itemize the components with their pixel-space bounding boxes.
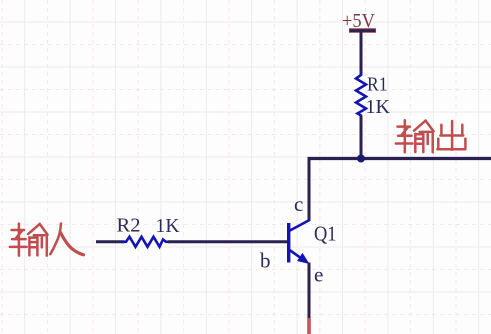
svg-text:c: c: [294, 192, 303, 216]
wire: input to R2: [96, 240, 124, 243]
wire: R1 bottom down to output node: [360, 116, 363, 159]
svg-text:+5V: +5V: [342, 10, 376, 32]
wire: R2 to base: [168, 240, 288, 243]
wire: emitter down: [308, 263, 311, 320]
svg-text:1K: 1K: [156, 215, 181, 237]
label 输出 (output) hand-drawn glyphs: [396, 120, 466, 152]
svg-text:e: e: [314, 263, 323, 287]
wire: red segment at bottom (cropped element below): [307, 318, 311, 334]
svg-text:R1: R1: [367, 74, 388, 96]
resistor R2 (zigzag): [121, 237, 170, 247]
emitter diagonal: [290, 250, 304, 260]
svg-text:R2: R2: [117, 215, 141, 237]
collector diagonal: [289, 220, 310, 231]
resistor R1 (zigzag): [356, 72, 366, 118]
glyph 出: [437, 121, 465, 150]
svg-text:b: b: [260, 249, 271, 273]
power +5V symbol (bar): [349, 28, 376, 33]
base bar: [287, 223, 290, 263]
emitter arrowhead: [297, 253, 310, 264]
wire: +5V bar down to R1 top: [360, 32, 363, 75]
transistor Q1 (NPN): [289, 220, 310, 264]
wire: collector riser (corner to collector): [308, 157, 311, 221]
glyph 输 (of 输出): [396, 120, 434, 152]
wire: output horizontal rail: [308, 157, 491, 160]
glyph 输 (of 输入): [10, 224, 48, 256]
label 输入 (input) hand-drawn glyphs: [10, 224, 84, 256]
glyph 入: [50, 224, 83, 255]
svg-text:1K: 1K: [366, 96, 391, 118]
node: output junction dot: [357, 155, 365, 163]
svg-text:Q1: Q1: [314, 222, 337, 246]
